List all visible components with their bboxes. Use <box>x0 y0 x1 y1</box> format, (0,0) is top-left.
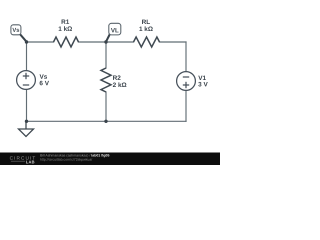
svg-text:1 kΩ: 1 kΩ <box>139 26 153 33</box>
svg-text:RL: RL <box>142 19 151 26</box>
svg-text:LAB: LAB <box>26 159 35 164</box>
svg-text:Vs: Vs <box>12 28 19 34</box>
svg-text:2 kΩ: 2 kΩ <box>113 82 127 89</box>
svg-text:R1: R1 <box>61 19 70 26</box>
svg-text:1 kΩ: 1 kΩ <box>58 26 72 33</box>
svg-text:R2: R2 <box>113 75 122 82</box>
svg-text:http:/​/circuitlab.com/c/72skp: http:/​/circuitlab.com/c/72skpwkua/ <box>40 158 92 162</box>
svg-text:3 V: 3 V <box>198 81 208 88</box>
svg-text:VL: VL <box>111 27 119 34</box>
svg-text:6 V: 6 V <box>39 80 49 87</box>
